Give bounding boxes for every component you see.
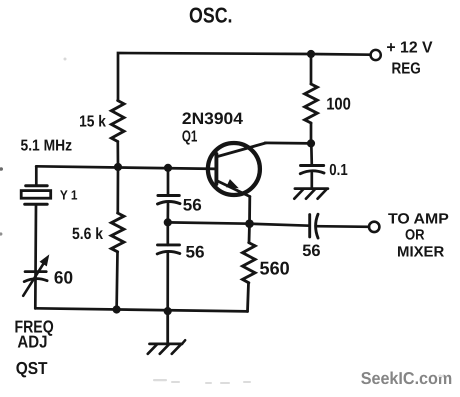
capacitor C1 56: [158, 196, 181, 205]
svg-text:56: 56: [186, 243, 205, 262]
svg-text:QST: QST: [16, 358, 48, 378]
svg-text:Y 1: Y 1: [60, 188, 78, 203]
wire 5.6k bottom to rail: [115, 252, 119, 310]
wire emitter node to 560: [248, 224, 251, 243]
node base/15k junction: [114, 163, 122, 171]
svg-text:ADJ: ADJ: [17, 332, 47, 352]
node bottom/5.6k junction: [113, 305, 121, 313]
node between C1 and C2: [164, 218, 172, 226]
crystal Y1: [21, 186, 51, 205]
wire C3 to ground: [310, 173, 313, 189]
svg-text:OR: OR: [405, 227, 425, 243]
wire top supply rail: [118, 53, 370, 101]
ground (chassis) under C3: [294, 189, 328, 199]
svg-text:60: 60: [54, 268, 73, 288]
svg-text:2N3904: 2N3904: [182, 109, 244, 128]
variable capacitor 60 (FREQ ADJ): [23, 254, 49, 295]
wire collector node to C3: [310, 143, 313, 165]
capacitor C3 0.1: [300, 166, 324, 174]
wire mid node to C2: [166, 223, 169, 245]
capacitor C2 56: [157, 245, 180, 254]
node bottom/caps-ground junction: [164, 307, 172, 315]
capacitor C4 coupling 56: [310, 214, 318, 238]
transistor Q1 2N3904: [208, 143, 266, 197]
scan artifact faint marks bottom center: [153, 375, 444, 384]
svg-text:TO AMP: TO AMP: [388, 212, 449, 228]
wire top rail to 100: [310, 54, 313, 84]
resistor R 15 k: [111, 101, 124, 142]
label TO AMP OR MIXER: [388, 212, 449, 261]
svg-text:5.6 k: 5.6 k: [72, 225, 104, 243]
wire base rail to 5.6k top: [116, 167, 119, 213]
wire collector to 100 node: [265, 142, 311, 145]
svg-text:100: 100: [326, 95, 351, 114]
svg-text:0.1: 0.1: [329, 162, 347, 179]
wire C2 to bottom rail: [166, 254, 169, 312]
svg-text:OSC.: OSC.: [189, 4, 233, 28]
scan artifact speck left edge mid: [0, 232, 2, 235]
node top rail / 100: [307, 50, 315, 58]
svg-text:Q1: Q1: [182, 128, 198, 145]
wire bottom node to ground: [166, 311, 169, 344]
svg-text:+ 12 V: + 12 V: [386, 39, 433, 56]
node base/caps junction: [164, 164, 172, 172]
ground (chassis) bottom: [148, 340, 185, 354]
wire emitter vertical: [248, 197, 251, 224]
label +12 V REG: [386, 39, 433, 77]
wire 100 to collector node: [310, 123, 313, 143]
wire base junction to C1: [167, 168, 170, 196]
svg-text:56: 56: [302, 242, 320, 260]
scan artifact faint dot top left: [64, 58, 67, 61]
terminal output (open circle): [369, 222, 379, 232]
wire 15k bottom to base rail: [116, 142, 119, 168]
node collector / 0.1: [307, 139, 315, 147]
resistor 100: [305, 84, 318, 123]
svg-text:MIXER: MIXER: [397, 244, 445, 260]
resistor 5.6 k: [111, 213, 124, 252]
wire C4 to output terminal: [316, 225, 369, 228]
wire crystal top stub: [35, 166, 38, 185]
svg-text:5.1 MHz: 5.1 MHz: [21, 137, 73, 154]
svg-text:REG: REG: [392, 61, 421, 78]
resistor 560: [243, 243, 256, 283]
svg-text:56: 56: [183, 195, 202, 214]
node emitter junction: [245, 219, 254, 228]
wire crystal bottom through variable cap to bottom rail: [34, 204, 37, 308]
wire base rail: [36, 166, 216, 169]
label FREQ ADJ: [15, 316, 54, 351]
svg-text:560: 560: [260, 258, 290, 279]
scan artifact speck left edge upper: [0, 167, 3, 171]
wire mid-cap node to emitter node: [168, 222, 250, 223]
wire 560 to bottom rail: [248, 283, 249, 312]
svg-text:15 k: 15 k: [79, 113, 106, 130]
svg-text:SeekIC.com: SeekIC.com: [361, 368, 453, 388]
terminal +12V (open circle): [371, 50, 381, 60]
wire emitter node to C4: [250, 224, 310, 226]
wire bottom rail: [35, 308, 247, 311]
wire C1 to mid node: [166, 204, 169, 223]
